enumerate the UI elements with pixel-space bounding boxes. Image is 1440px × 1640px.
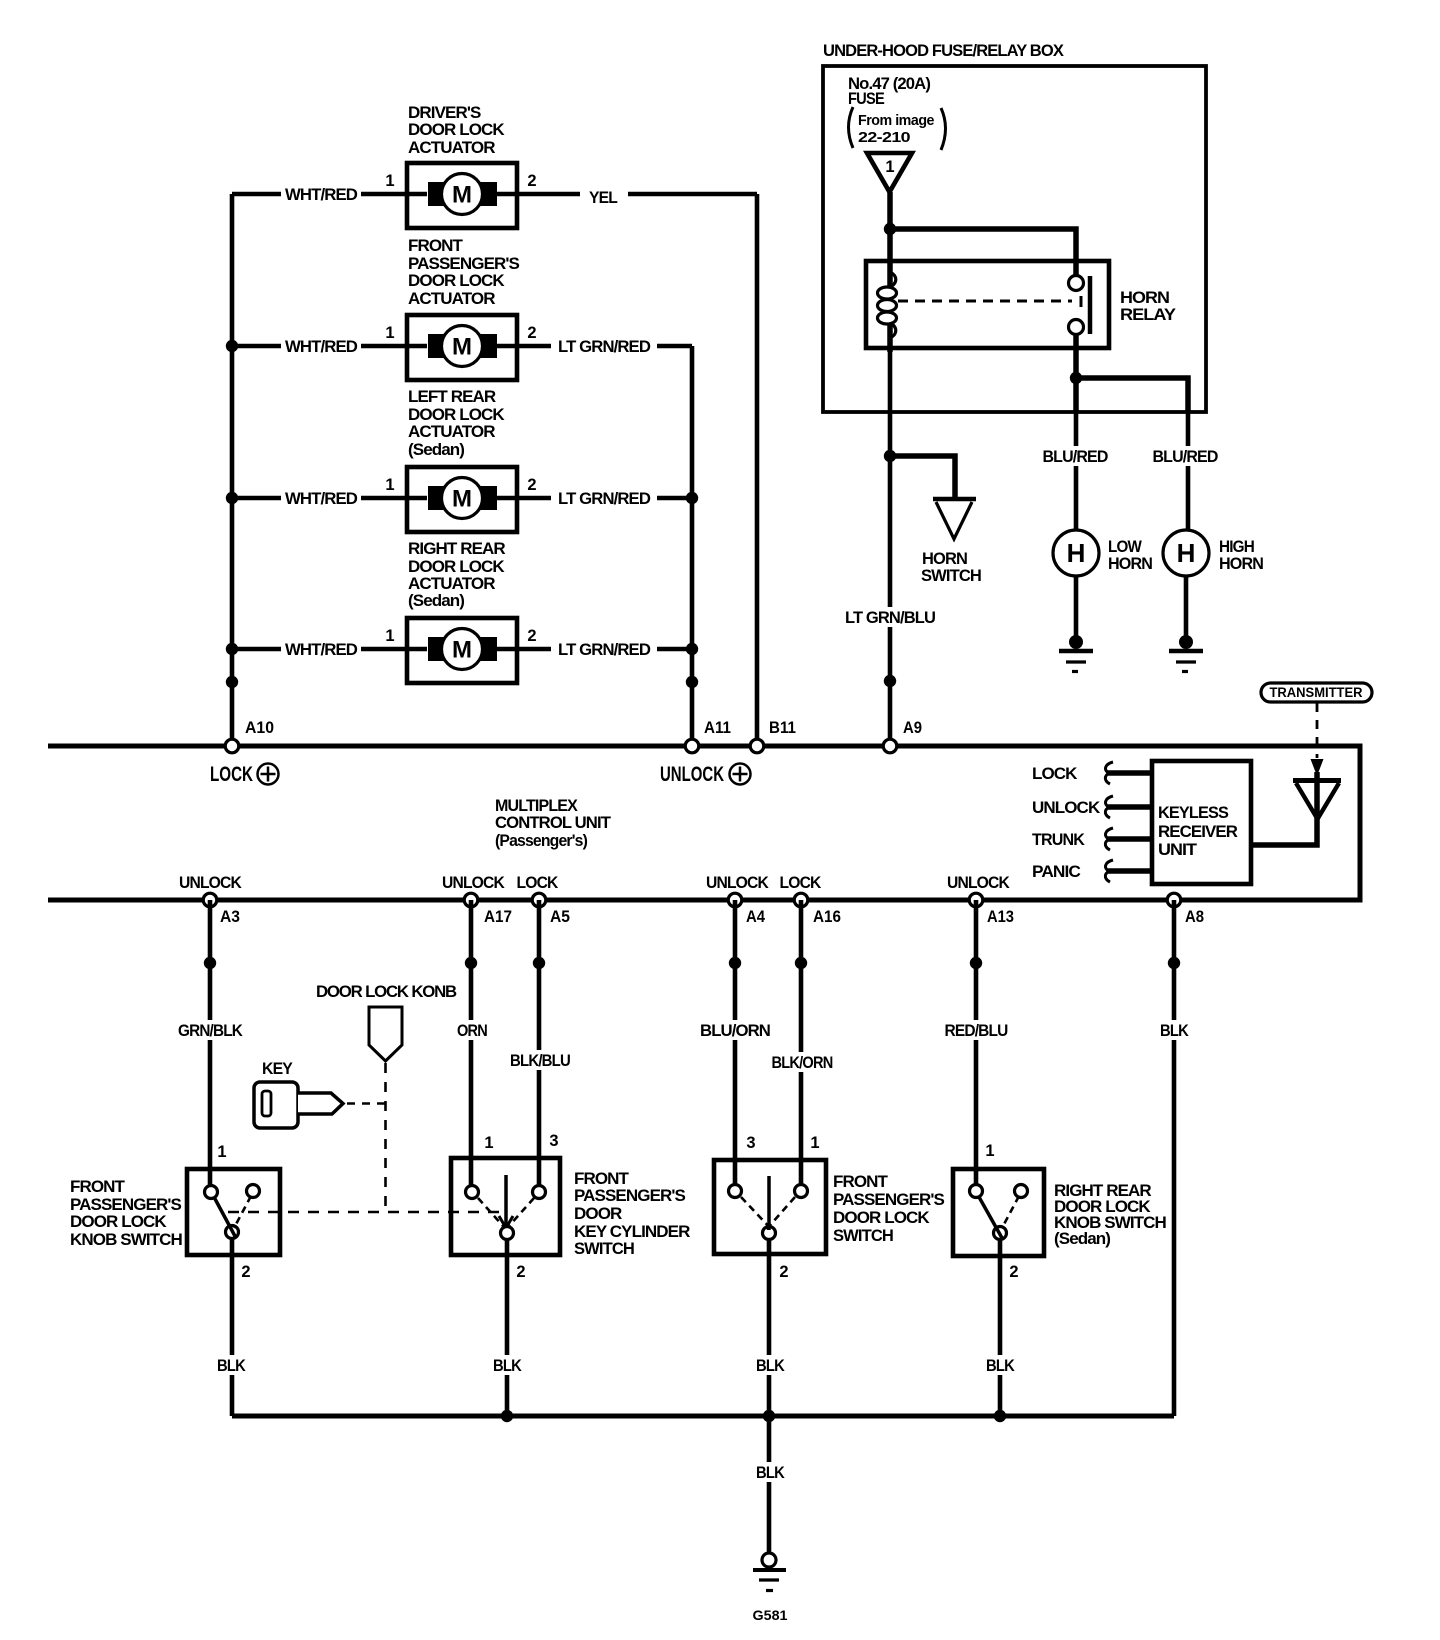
svg-text:BLK: BLK	[493, 1356, 522, 1375]
svg-text:LOCK: LOCK	[780, 873, 822, 892]
svg-text:WHT/RED: WHT/RED	[285, 337, 358, 356]
svg-text:BLK/BLU: BLK/BLU	[510, 1051, 571, 1070]
svg-text:FRONT: FRONT	[70, 1177, 126, 1196]
svg-text:M: M	[452, 486, 472, 513]
svg-text:LT GRN/BLU: LT GRN/BLU	[845, 608, 936, 627]
svg-text:1: 1	[385, 476, 394, 494]
svg-text:GRN/BLK: GRN/BLK	[178, 1021, 243, 1040]
svg-text:RELAY: RELAY	[1120, 305, 1177, 324]
svg-text:WHT/RED: WHT/RED	[285, 640, 358, 659]
svg-text:A8: A8	[1185, 908, 1204, 926]
svg-text:LOCK: LOCK	[210, 763, 253, 786]
svg-text:KNOB SWITCH: KNOB SWITCH	[70, 1230, 183, 1249]
svg-text:HORN: HORN	[1108, 554, 1153, 573]
svg-text:KEY: KEY	[262, 1059, 293, 1078]
svg-text:DOOR: DOOR	[574, 1204, 622, 1223]
svg-text:M: M	[452, 182, 472, 209]
svg-text:(Sedan): (Sedan)	[408, 440, 464, 459]
svg-text:BLK: BLK	[1160, 1021, 1189, 1040]
svg-text:UNLOCK: UNLOCK	[947, 873, 1010, 892]
svg-text:1: 1	[385, 172, 394, 190]
svg-text:LEFT REAR: LEFT REAR	[408, 387, 496, 406]
svg-text:PASSENGER'S: PASSENGER'S	[574, 1186, 686, 1205]
svg-text:3: 3	[746, 1134, 755, 1152]
svg-text:2: 2	[241, 1263, 250, 1281]
svg-text:PASSENGER'S: PASSENGER'S	[833, 1190, 945, 1209]
svg-text:LT GRN/RED: LT GRN/RED	[558, 640, 651, 659]
svg-text:TRUNK: TRUNK	[1032, 830, 1086, 849]
svg-text:UNLOCK: UNLOCK	[442, 873, 505, 892]
svg-text:DOOR LOCK: DOOR LOCK	[408, 120, 505, 139]
svg-text:KEYLESS: KEYLESS	[1158, 803, 1229, 822]
svg-text:ORN: ORN	[457, 1021, 488, 1040]
svg-text:2: 2	[527, 172, 536, 190]
svg-text:1: 1	[217, 1143, 226, 1161]
svg-text:BLK: BLK	[986, 1356, 1015, 1375]
svg-text:H: H	[1067, 538, 1086, 568]
svg-text:BLU/RED: BLU/RED	[1043, 447, 1109, 466]
svg-text:22-210: 22-210	[858, 129, 910, 146]
svg-text:1: 1	[810, 1134, 819, 1152]
svg-text:DOOR LOCK: DOOR LOCK	[408, 271, 505, 290]
svg-text:DOOR LOCK: DOOR LOCK	[70, 1212, 167, 1231]
svg-text:DOOR LOCK KONB: DOOR LOCK KONB	[316, 982, 457, 1001]
svg-text:UNLOCK: UNLOCK	[1032, 798, 1101, 817]
svg-text:H: H	[1177, 538, 1196, 568]
svg-text:LOCK: LOCK	[1032, 764, 1078, 783]
svg-text:BLK/ORN: BLK/ORN	[772, 1053, 834, 1072]
svg-text:UNLOCK: UNLOCK	[706, 873, 769, 892]
svg-text:M: M	[452, 334, 472, 361]
svg-text:FRONT: FRONT	[408, 236, 464, 255]
svg-text:FRONT: FRONT	[833, 1172, 889, 1191]
svg-text:BLU/RED: BLU/RED	[1153, 447, 1219, 466]
svg-text:LT GRN/RED: LT GRN/RED	[558, 489, 651, 508]
svg-text:A3: A3	[220, 908, 240, 926]
svg-text:1: 1	[985, 1142, 994, 1160]
svg-text:FUSE: FUSE	[848, 89, 884, 108]
svg-text:(Sedan): (Sedan)	[1054, 1229, 1110, 1248]
svg-text:1: 1	[885, 158, 894, 176]
svg-text:RIGHT REAR: RIGHT REAR	[408, 539, 505, 558]
svg-text:(Passenger's): (Passenger's)	[495, 831, 587, 850]
svg-text:B11: B11	[769, 719, 796, 737]
svg-text:UNDER-HOOD FUSE/RELAY BOX: UNDER-HOOD FUSE/RELAY BOX	[823, 41, 1065, 60]
svg-text:A10: A10	[245, 719, 274, 737]
svg-text:2: 2	[527, 476, 536, 494]
svg-text:SWITCH: SWITCH	[574, 1239, 635, 1258]
svg-text:UNIT: UNIT	[1158, 840, 1198, 859]
svg-text:G581: G581	[753, 1607, 788, 1623]
svg-text:From image: From image	[858, 112, 934, 129]
svg-text:UNLOCK: UNLOCK	[179, 873, 242, 892]
svg-text:2: 2	[527, 627, 536, 645]
svg-text:SWITCH: SWITCH	[833, 1226, 894, 1245]
svg-text:SWITCH: SWITCH	[921, 566, 982, 585]
svg-text:2: 2	[1009, 1263, 1018, 1281]
svg-text:BLK: BLK	[756, 1356, 785, 1375]
svg-text:A11: A11	[704, 719, 731, 737]
svg-text:TRANSMITTER: TRANSMITTER	[1270, 685, 1363, 700]
svg-text:1: 1	[484, 1134, 493, 1152]
svg-text:2: 2	[516, 1263, 525, 1281]
svg-text:LT GRN/RED: LT GRN/RED	[558, 337, 651, 356]
svg-text:WHT/RED: WHT/RED	[285, 185, 358, 204]
svg-text:YEL: YEL	[589, 188, 617, 207]
svg-text:RECEIVER: RECEIVER	[1158, 822, 1238, 841]
svg-text:PANIC: PANIC	[1032, 862, 1081, 881]
svg-text:BLK: BLK	[217, 1356, 246, 1375]
svg-text:WHT/RED: WHT/RED	[285, 489, 358, 508]
svg-text:RED/BLU: RED/BLU	[945, 1021, 1009, 1040]
svg-text:LOCK: LOCK	[517, 873, 559, 892]
svg-text:BLU/ORN: BLU/ORN	[700, 1021, 771, 1040]
svg-text:3: 3	[549, 1132, 558, 1150]
svg-text:A13: A13	[987, 908, 1014, 926]
svg-text:A9: A9	[903, 719, 922, 737]
svg-text:BLK: BLK	[756, 1463, 785, 1482]
svg-text:HORN: HORN	[1219, 554, 1264, 573]
svg-text:A16: A16	[813, 908, 841, 926]
svg-text:2: 2	[779, 1263, 788, 1281]
svg-text:UNLOCK: UNLOCK	[660, 763, 724, 786]
svg-text:ACTUATOR: ACTUATOR	[408, 422, 495, 441]
svg-text:1: 1	[385, 627, 394, 645]
svg-text:2: 2	[527, 324, 536, 342]
svg-text:1: 1	[385, 324, 394, 342]
svg-text:DOOR LOCK: DOOR LOCK	[833, 1208, 930, 1227]
svg-text:A17: A17	[484, 908, 512, 926]
svg-text:CONTROL UNIT: CONTROL UNIT	[495, 813, 611, 832]
svg-text:M: M	[452, 637, 472, 664]
svg-text:(Sedan): (Sedan)	[408, 591, 464, 610]
svg-text:A5: A5	[550, 908, 570, 926]
svg-text:ACTUATOR: ACTUATOR	[408, 289, 495, 308]
svg-text:A4: A4	[746, 908, 766, 926]
svg-text:ACTUATOR: ACTUATOR	[408, 138, 495, 157]
